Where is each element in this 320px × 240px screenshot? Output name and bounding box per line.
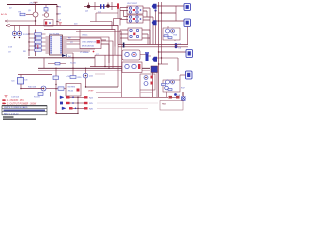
resistor RN2 xyxy=(29,37,46,39)
power sym VCC5 xyxy=(5,95,20,98)
wire vertical collector bus xyxy=(56,5,58,26)
wire Q1 emitter xyxy=(35,17,37,26)
capacitor C1 xyxy=(98,4,104,13)
resistor R16 xyxy=(168,89,172,91)
wire faint rail xyxy=(38,69,150,71)
svg-text:R1 1K: R1 1K xyxy=(34,96,40,98)
wire main rail A xyxy=(10,26,118,45)
wire CON4 stub xyxy=(180,75,186,80)
junction node blue xyxy=(154,9,156,44)
wire u3 down xyxy=(20,84,21,89)
svg-text:VREF: VREF xyxy=(88,91,94,93)
wire pin net 1 xyxy=(67,37,110,55)
label osc1 xyxy=(82,34,88,36)
svg-text:Y1 4MHz: Y1 4MHz xyxy=(80,52,89,54)
label C3 xyxy=(59,20,62,22)
resistor R26 xyxy=(84,107,94,110)
transistor Q5 xyxy=(106,3,109,8)
wire J1-CON2 xyxy=(157,20,185,22)
resistor RN3 xyxy=(28,41,45,43)
label tl431 xyxy=(70,63,77,65)
wire bundle v109 xyxy=(108,55,109,69)
wire vert x44 xyxy=(43,58,45,69)
wire pin net 3 xyxy=(67,43,81,45)
transistor Q8 xyxy=(166,29,170,33)
module U9 xyxy=(122,62,142,73)
wire J2-CON3 xyxy=(159,51,187,53)
opto U7 xyxy=(128,28,142,40)
opto U5 xyxy=(127,6,143,14)
diode D4 dark xyxy=(62,54,74,59)
net label AC_IN xyxy=(1,13,7,16)
resistor R28 xyxy=(169,96,173,99)
svg-text:78L05: 78L05 xyxy=(68,90,74,92)
connector CON3 xyxy=(186,50,193,58)
transistor Q12 xyxy=(144,76,148,80)
connector CON4 xyxy=(186,71,193,79)
wire bundle top xyxy=(95,55,122,67)
wire vert x152 xyxy=(152,73,154,98)
svg-text:1.5K: 1.5K xyxy=(8,47,13,49)
svg-text:+VCC: +VCC xyxy=(29,3,35,5)
table frame xyxy=(2,106,47,115)
table row2 text xyxy=(4,110,46,112)
transistor Q9 xyxy=(171,80,175,84)
wire m low xyxy=(21,88,44,90)
resistor R4 xyxy=(44,5,48,13)
svg-text:AC-IN: AC-IN xyxy=(1,13,7,16)
resistor R20 xyxy=(70,68,82,79)
wire m rail xyxy=(18,75,52,78)
svg-text:C13 104: C13 104 xyxy=(11,96,20,98)
label 220 xyxy=(74,24,78,26)
transistor Q10 xyxy=(165,80,170,90)
wire vert x176 xyxy=(175,6,177,21)
component U3 xyxy=(12,78,24,85)
component blue block xyxy=(151,66,158,73)
svg-text:FAN: FAN xyxy=(162,103,166,106)
IC U2 body xyxy=(50,35,63,55)
wire cluster B stub xyxy=(167,88,186,98)
wire long rail 2 xyxy=(118,46,188,48)
wire stub v2 xyxy=(111,2,113,10)
wire pin net 2 xyxy=(67,39,81,41)
wires opto left xyxy=(120,8,128,26)
wire bus lower xyxy=(28,57,95,59)
wire out q11 xyxy=(86,86,119,88)
diode D12 xyxy=(62,107,84,110)
connector CON2 xyxy=(184,19,191,27)
text line below 1 xyxy=(3,116,14,118)
svg-text:SMPS POWER BOARD: SMPS POWER BOARD xyxy=(4,106,28,109)
diode D9 xyxy=(38,86,46,91)
diode pair D5 D6 xyxy=(175,43,182,50)
wire bus v158 xyxy=(158,2,160,97)
wire corner 1 xyxy=(90,66,122,68)
capacitor C10 red xyxy=(37,45,38,49)
note arrow 1 xyxy=(3,100,25,103)
component box B1 xyxy=(44,20,53,27)
outline cluster A xyxy=(163,28,180,40)
wire pin net 6 xyxy=(67,50,91,52)
transistor Q13 xyxy=(144,82,148,86)
resistor RN1 xyxy=(28,33,45,35)
wires opto right xyxy=(143,8,153,45)
port arrow left xyxy=(6,24,10,27)
svg-text:2. OUTPUT POWER : 300W: 2. OUTPUT POWER : 300W xyxy=(7,103,37,105)
svg-text:U5 PC817: U5 PC817 xyxy=(127,3,138,5)
wires U7 left xyxy=(120,30,128,45)
wire low2 xyxy=(96,92,122,97)
svg-text:LM: LM xyxy=(25,80,28,82)
wire vert maroon xyxy=(50,92,52,97)
junction red xyxy=(55,112,57,114)
resistor R6 xyxy=(19,12,26,16)
wire bundle v105 xyxy=(104,55,105,67)
resistor RN5 xyxy=(28,49,45,51)
wire row1 right xyxy=(98,96,150,98)
wires U7 right xyxy=(142,30,150,45)
wire bus right xyxy=(152,17,154,45)
table row1 text xyxy=(4,106,28,109)
diode D3 red xyxy=(117,3,119,18)
svg-text:REV 1.2 03-10: REV 1.2 03-10 xyxy=(4,113,19,115)
svg-text:MODULE A1: MODULE A1 xyxy=(82,45,95,48)
label c7 xyxy=(96,54,99,56)
wire J1 mid xyxy=(159,12,177,14)
wire bundle v118 xyxy=(117,45,119,88)
net flag F1 xyxy=(152,4,157,9)
label U2 xyxy=(50,34,60,36)
wire long rail low xyxy=(38,67,150,69)
svg-text:TL431: TL431 xyxy=(70,63,77,65)
junction dots rail low xyxy=(55,68,86,69)
resistor R15 xyxy=(162,84,166,86)
diode dark bar xyxy=(123,43,125,48)
wire faint y74 xyxy=(95,73,105,75)
wire top rail VCC xyxy=(7,3,57,10)
IC U2 pins right xyxy=(63,37,67,53)
wire vert x157 xyxy=(156,73,158,98)
label D1 D2 xyxy=(23,34,30,36)
power flag GND red xyxy=(59,23,62,25)
wire bus v161 xyxy=(161,2,163,64)
svg-text:5V REG: 5V REG xyxy=(68,86,76,88)
wire bundle v113 xyxy=(112,55,114,68)
transistor Q2 xyxy=(42,13,49,17)
wire pin net 5 xyxy=(67,48,96,50)
wire d9-r22 xyxy=(46,88,58,90)
wire bundle v115 xyxy=(114,47,116,55)
svg-text:OSC1: OSC1 xyxy=(82,34,88,36)
wire U8 stub xyxy=(140,55,151,57)
wire return low xyxy=(56,112,78,114)
resistor R22 xyxy=(58,87,66,90)
component C14 xyxy=(34,93,43,99)
wire main rail B xyxy=(44,30,115,47)
IC U2 pins left xyxy=(46,37,50,53)
wire y64 stub xyxy=(159,63,169,65)
power flag VCC xyxy=(34,2,38,4)
wire p rail xyxy=(150,96,168,98)
port arrow IN xyxy=(5,20,36,22)
wire J1-CON1 xyxy=(157,5,185,7)
LED D2 xyxy=(17,26,21,39)
wire stub v1 xyxy=(94,2,96,10)
resistor R23 xyxy=(48,62,66,65)
wire x1 left up xyxy=(79,30,81,39)
outline box P xyxy=(160,101,183,111)
wire bus v1 xyxy=(28,26,30,57)
resistor R19 red xyxy=(151,82,153,85)
label R9 C2 xyxy=(68,38,73,44)
diode D11 xyxy=(60,102,84,105)
capacitor C5 xyxy=(145,52,149,61)
wire row3 right xyxy=(97,107,148,109)
net flag F2 xyxy=(152,20,157,25)
table row3 text xyxy=(4,113,19,115)
resistor R29 xyxy=(176,96,180,99)
wire vertical Q1 collector xyxy=(35,5,37,13)
wire pin net 7 xyxy=(67,53,74,68)
note arrow 2 xyxy=(3,103,38,106)
wire vert red xyxy=(55,92,57,113)
node star xyxy=(181,92,185,101)
cluster box C xyxy=(140,74,155,97)
svg-text:OSC 4MHZ X2: OSC 4MHZ X2 xyxy=(82,41,97,43)
resistor R11 xyxy=(164,35,168,37)
label U5 xyxy=(127,3,138,5)
resistor R25 xyxy=(84,102,94,105)
resistor RN4 xyxy=(29,45,46,47)
diode D8 xyxy=(174,93,181,97)
label u3 right xyxy=(25,80,28,82)
opto U6 xyxy=(127,15,143,23)
wire cluster A stub xyxy=(168,26,175,41)
transistor Q1 xyxy=(26,10,38,17)
text line below 2 xyxy=(3,118,36,120)
label r10 xyxy=(28,87,37,89)
wire mid rail xyxy=(84,6,117,8)
svg-text:R10 10K: R10 10K xyxy=(28,87,37,89)
wire J2 stub xyxy=(157,58,178,71)
transistor Q11 xyxy=(83,68,93,87)
module X1 box xyxy=(80,38,101,49)
svg-text:1. 2SC945 : 45V: 1. 2SC945 : 45V xyxy=(7,100,24,102)
label cluster A xyxy=(174,35,179,37)
label under X1 xyxy=(80,51,94,54)
wire y13 link xyxy=(96,13,118,22)
wire X1 right xyxy=(101,40,109,63)
label cap c9 xyxy=(8,47,13,54)
resistor R18 red xyxy=(151,76,153,79)
label R8 xyxy=(23,51,26,53)
transistor Q7 xyxy=(171,29,175,33)
wire faint y92 xyxy=(140,92,152,94)
wire CON2 down xyxy=(187,27,189,45)
wire pin net 4 xyxy=(67,41,114,55)
LED D1 xyxy=(12,26,16,39)
resistor R21 xyxy=(53,68,59,92)
net flag F3 xyxy=(152,57,157,62)
label R5 xyxy=(59,7,62,9)
label above note xyxy=(66,76,70,78)
junction dots bus xyxy=(158,5,162,64)
wire bundle v121 xyxy=(121,55,123,92)
wire corner x113 xyxy=(114,19,123,27)
wire long rail 1 xyxy=(118,44,188,46)
svg-text:+5V: +5V xyxy=(66,76,70,78)
wire corner x121 xyxy=(76,32,122,56)
note box N1 xyxy=(66,84,81,97)
outline cluster B xyxy=(163,80,180,92)
connector CON1 xyxy=(184,4,191,11)
transistor Q4 xyxy=(85,3,90,13)
label red vref xyxy=(88,91,94,93)
module U8 xyxy=(122,50,140,60)
resistor ticks x57 xyxy=(57,7,59,22)
wire row2 right xyxy=(97,102,158,104)
resistor R12 xyxy=(168,37,172,39)
wire vert x78 xyxy=(77,97,78,115)
diode D10 xyxy=(60,96,84,99)
wire p mid xyxy=(172,96,176,98)
junction dots x57 xyxy=(56,6,57,22)
label R7 xyxy=(59,14,62,16)
wire bus v2 xyxy=(35,30,37,57)
resistor R24 xyxy=(84,96,94,99)
wire y21 link xyxy=(90,22,112,31)
